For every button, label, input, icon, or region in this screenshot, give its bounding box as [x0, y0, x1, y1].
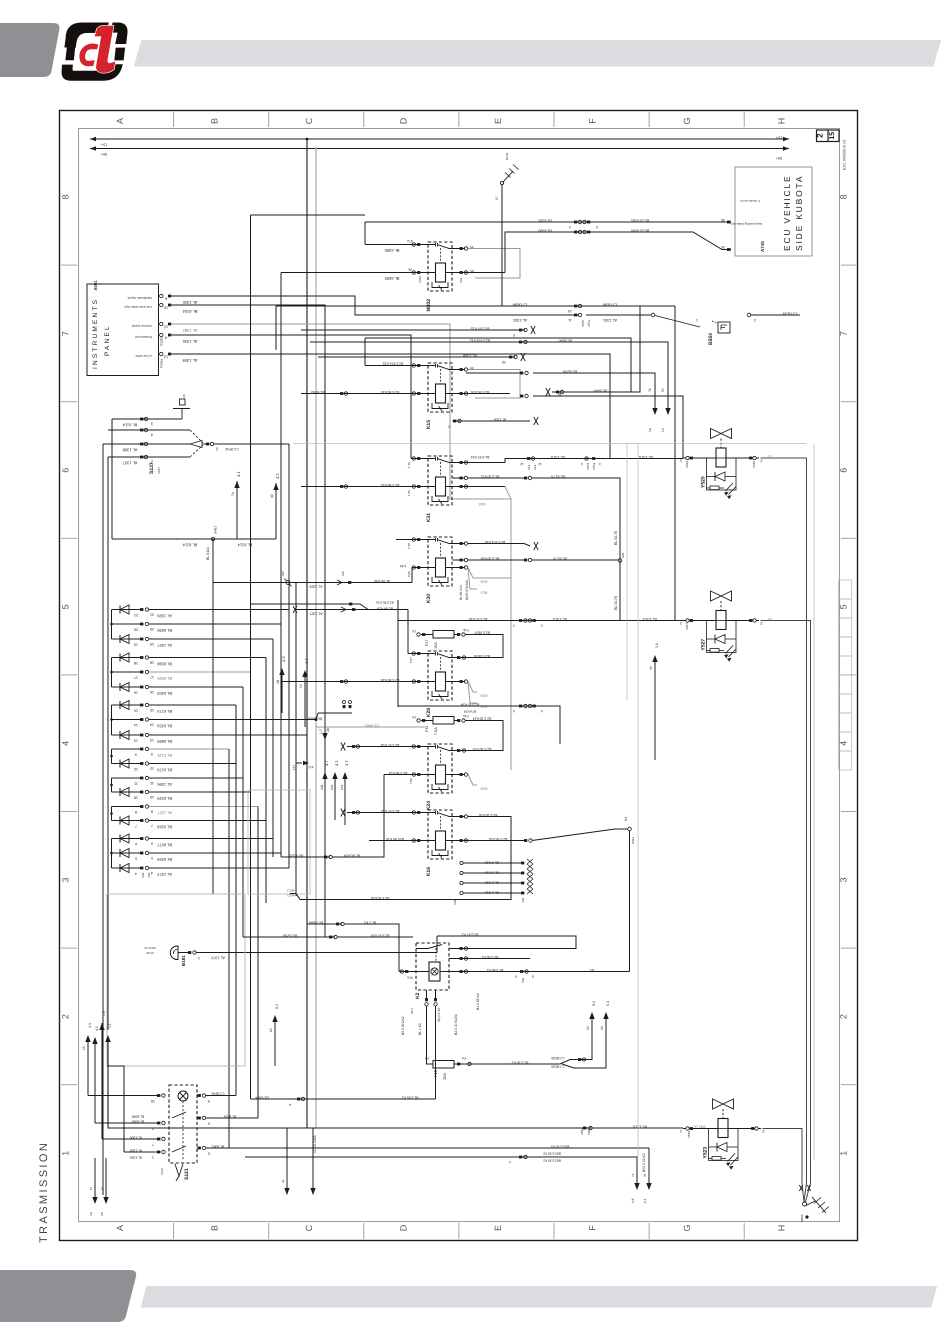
svg-text:21: 21: [134, 613, 138, 617]
K15 aux row AL 1399: [318, 356, 515, 358]
svg-text:X312: X312: [418, 276, 422, 283]
channel ref arrow 4.7: [304, 677, 306, 727]
svg-text:2: 2: [816, 133, 825, 138]
svg-text:B7a K24: B7a K24: [464, 710, 476, 714]
svg-text:B1.5 87 K30: B1.5 87 K30: [469, 617, 488, 621]
svg-text:BL 6269: BL 6269: [156, 824, 172, 829]
svg-text:B02.5 32 K2: B02.5 32 K2: [642, 1153, 646, 1172]
svg-text:BL 6114: BL 6114: [182, 543, 197, 548]
svg-text:15: 15: [829, 132, 836, 140]
K29 85 tags: [453, 681, 466, 683]
svg-text:3: 3: [61, 877, 71, 882]
K15 30 row to down arrow: [533, 373, 655, 408]
svg-text:CJ 0F42: CJ 0F42: [225, 447, 239, 451]
svg-text:AL 1301: AL 1301: [513, 318, 527, 322]
svg-text:X56a: X56a: [580, 1128, 584, 1135]
diode bank left bus segments: [111, 610, 113, 640]
svg-text:B2.5 87 K2: B2.5 87 K2: [461, 933, 478, 937]
svg-text:NO5: NO5: [478, 502, 485, 506]
solenoid valve Y523: [679, 1099, 765, 1170]
svg-text:1: 1: [679, 621, 682, 626]
svg-text:BL 1109: BL 1109: [494, 418, 506, 422]
svg-text:BL 6229: BL 6229: [156, 796, 172, 801]
svg-text:6: 6: [61, 468, 71, 473]
svg-text:B2.5 86 K16: B2.5 86 K16: [376, 601, 394, 605]
svg-text:15A: 15A: [442, 1073, 447, 1080]
svg-text:4.2: 4.2: [275, 473, 280, 479]
wire BL 6259: [243, 936, 335, 938]
diode row pin 14 BL 6259: [112, 719, 141, 721]
svg-text:B1.5 30 K30: B1.5 30 K30: [481, 557, 500, 561]
svg-text:B: B: [210, 118, 220, 124]
S121 right pins: [198, 1094, 201, 1097]
svg-text:B2.5 0E30: B2.5 0E30: [474, 654, 490, 658]
svg-text:15: 15: [134, 709, 138, 713]
svg-text:B02.5 30 K2: B02.5 30 K2: [543, 1159, 561, 1163]
svg-text:4.1: 4.1: [334, 760, 339, 766]
K15 aux row B2.5 87a K15 to arrow: [310, 341, 530, 343]
down arrow 1.7: [324, 727, 326, 733]
svg-text:20: 20: [134, 628, 138, 632]
switch B554: [586, 314, 651, 316]
diode row pin 9 BL 6119: [112, 748, 141, 750]
svg-text:AL 1326: AL 1326: [182, 339, 198, 344]
svg-text:2: 2: [839, 1014, 849, 1019]
svg-text:B25 86 K16: B25 86 K16: [386, 837, 404, 841]
svg-text:18: 18: [134, 661, 138, 665]
svg-text:10: 10: [568, 309, 572, 313]
svg-text:8: 8: [61, 194, 71, 199]
K2 left wire: [399, 971, 429, 973]
svg-text:1.5: 1.5: [102, 1011, 106, 1016]
svg-text:ECU VEHICLE: ECU VEHICLE: [782, 175, 792, 251]
K24 85 tag: [453, 774, 466, 776]
svg-text:X57b: X57b: [581, 320, 585, 327]
Y527 return wire: [761, 621, 811, 1203]
S121 lamp left arrows: [85, 1035, 90, 1042]
power rail 50+: [90, 148, 789, 150]
svg-text:BL 6179: BL 6179: [156, 767, 172, 772]
ref up arrow 9.1: [274, 1022, 276, 1066]
panel wire AL 1309: [171, 354, 610, 459]
svg-text:XP1a: XP1a: [592, 462, 596, 470]
svg-text:7: 7: [839, 331, 849, 336]
junction merge circle a: [212, 539, 214, 894]
Y523 return wire: [763, 1129, 805, 1203]
svg-text:5: 5: [151, 856, 153, 860]
svg-text:9.1: 9.1: [592, 1001, 596, 1006]
svg-text:A001: A001: [93, 280, 98, 291]
rail tap verticals: [306, 138, 309, 141]
svg-text:5: 5: [135, 857, 137, 861]
svg-text:3: 3: [569, 225, 571, 229]
K2 mid right wire: [449, 958, 530, 960]
svg-text:Y527: Y527: [701, 639, 707, 651]
switch S121: [169, 1085, 197, 1163]
svg-text:AL 1313: AL 1313: [643, 617, 657, 621]
Deutz logo emblem: [62, 23, 128, 81]
M302 top link to ECU wire: [365, 221, 731, 223]
svg-text:G: G: [682, 1224, 692, 1231]
svg-text:1: 1: [679, 1129, 682, 1134]
B554 branch wire CJ 0E86: [276, 305, 675, 307]
merge row to K30 coil: [289, 582, 412, 584]
svg-text:BL 6077: BL 6077: [156, 842, 172, 847]
panel wire AL 1326: [171, 296, 579, 315]
svg-text:X56b: X56b: [587, 1128, 591, 1135]
fuse F18 15A: [433, 1061, 454, 1069]
Y520 return wire: [761, 458, 807, 1202]
svg-text:4.2: 4.2: [95, 1026, 99, 1031]
svg-text:reverse speed: reverse speed: [132, 324, 152, 328]
svg-text:1.8: 1.8: [631, 1198, 635, 1203]
svg-text:X#a: X#a: [147, 872, 151, 878]
svg-text:F31: F31: [425, 725, 429, 732]
M302 85 wire to ECU: [453, 272, 506, 274]
S137 contact: [190, 430, 203, 443]
S121 left wires: [88, 1095, 157, 1097]
svg-text:15: 15: [164, 324, 168, 328]
svg-text:B0.25 6090: B0.25 6090: [631, 229, 649, 233]
svg-text:AL 1327: AL 1327: [156, 810, 172, 815]
svg-text:X101a: X101a: [160, 359, 164, 368]
svg-text:X57a: X57a: [587, 320, 591, 327]
svg-text:12: 12: [150, 767, 154, 771]
svg-text:5: 5: [839, 604, 849, 609]
svg-text:X535: X535: [752, 461, 756, 468]
svg-text:B0.25 6395: B0.25 6395: [631, 219, 649, 223]
svg-text:70: 70: [643, 1173, 647, 1177]
svg-text:F: F: [588, 1225, 598, 1231]
svg-text:1: 1: [61, 1151, 71, 1156]
wire BL 6899 to K2: [307, 923, 342, 925]
svg-text:4.7: 4.7: [344, 760, 349, 766]
svg-text:7: 7: [61, 331, 71, 336]
svg-text:E: E: [493, 1225, 503, 1231]
svg-text:XP1b: XP1b: [586, 462, 590, 470]
svg-text:S121: S121: [184, 1168, 190, 1180]
svg-text:14: 14: [150, 723, 154, 727]
sheet number box: [817, 130, 840, 142]
svg-text:AL 1315: AL 1315: [633, 1125, 647, 1129]
svg-text:BL 6395: BL 6395: [538, 219, 551, 223]
svg-text:2: 2: [760, 459, 763, 464]
svg-text:15A: 15A: [434, 642, 438, 649]
svg-text:15: 15: [150, 708, 154, 712]
svg-text:AL 1314: AL 1314: [639, 455, 653, 459]
svg-text:Y520: Y520: [701, 476, 707, 488]
svg-text:AL 1382: AL 1382: [182, 328, 198, 333]
svg-text:M302: M302: [426, 299, 432, 312]
svg-text:#2 2: #2 2: [410, 1008, 414, 1014]
svg-text:7.5A: 7.5A: [434, 727, 438, 735]
svg-text:BL 6174: BL 6174: [156, 709, 172, 714]
junction merge X b: [293, 606, 297, 613]
svg-text:B2.5 87 K2#: B2.5 87 K2#: [371, 934, 390, 938]
svg-text:K30: K30: [426, 594, 432, 603]
svg-text:X1a: X1a: [533, 464, 537, 470]
svg-text:BL 6690: BL 6690: [384, 276, 400, 281]
solenoid valve Y527: [679, 591, 763, 662]
svg-text:B2.5 30 K16: B2.5 30 K16: [371, 896, 390, 900]
svg-text:F27: F27: [425, 639, 429, 646]
svg-text:4: 4: [839, 741, 849, 746]
svg-text:7: 7: [151, 824, 153, 828]
svg-text:CJ 0E45: CJ 0E45: [211, 1092, 224, 1096]
svg-text:K29: K29: [426, 708, 432, 717]
svg-text:AL 1309: AL 1309: [182, 358, 198, 363]
K2 top wire from B181: [437, 936, 576, 949]
svg-text:46 CJ: 46 CJ: [287, 889, 295, 893]
S121 right wires: [206, 1095, 236, 1097]
svg-text:11: 11: [89, 1187, 93, 1190]
svg-text:3: 3: [596, 225, 598, 229]
svg-text:CJ 0E30: CJ 0E30: [551, 1056, 564, 1060]
diode row pin 20 BL 6690: [112, 623, 141, 625]
svg-text:1J: 1J: [661, 428, 665, 432]
K16 30 wire loop down: [453, 816, 466, 818]
svg-text:EXC 0A/500 re 01: EXC 0A/500 re 01: [843, 139, 847, 170]
gray harness box S121: [107, 894, 245, 1066]
svg-text:0J: 0J: [299, 684, 303, 688]
svg-text:S neutre du rel: S neutre du rel: [740, 199, 760, 203]
svg-text:B1.5 87 K31: B1.5 87 K31: [471, 455, 490, 459]
diode row pin 5 BL 6259: [112, 852, 141, 854]
K30 87a X stub: [453, 543, 466, 545]
BL 6525 wire: [281, 856, 330, 858]
svg-text:TRASMISSION: TRASMISSION: [38, 1141, 50, 1243]
footer light gray bar: [141, 1286, 937, 1308]
diode row pin 7 BL 6269: [112, 820, 141, 822]
relay K30: [426, 537, 453, 603]
svg-text:5: 5: [532, 975, 534, 979]
svg-text:BL 6259: BL 6259: [156, 857, 172, 862]
K31 left wires: [411, 458, 428, 460]
svg-text:CJ 0E86: CJ 0E86: [513, 303, 528, 307]
svg-text:NO5: NO5: [480, 694, 487, 698]
svg-text:B2.5 86 K15: B2.5 86 K15: [381, 390, 400, 394]
svg-text:6 86: 6 86: [400, 564, 406, 568]
svg-text:AL 1326: AL 1326: [182, 300, 198, 305]
K31 contact out to AL 1314: [453, 462, 506, 464]
cable shield to ground: [799, 1185, 802, 1191]
svg-text:28: 28: [326, 728, 330, 732]
merge row b: [251, 604, 369, 610]
svg-text:9: 9: [151, 752, 153, 756]
svg-text:Gnd1: Gnd1: [505, 152, 509, 160]
svg-text:CJ 0E39: CJ 0E39: [783, 312, 798, 316]
header dark gray bar: [0, 23, 59, 77]
K16 twisted cable rows: [460, 861, 463, 864]
svg-text:AL 1326: AL 1326: [156, 613, 172, 618]
svg-text:B02.5 32 K2: B02.5 32 K2: [551, 1145, 570, 1149]
K30 85 tags: [453, 567, 466, 569]
svg-text:2: 2: [754, 318, 756, 322]
svg-text:76: 76: [648, 388, 652, 392]
svg-text:9: 9: [513, 709, 515, 713]
svg-text:11: 11: [134, 782, 138, 786]
svg-text:16: 16: [150, 690, 154, 694]
svg-text:B1.5 30 K2: B1.5 30 K2: [511, 1061, 528, 1065]
svg-text:B2.5 87a K2: B2.5 87a K2: [401, 1016, 405, 1035]
right side gray comb: [839, 580, 852, 599]
svg-text:X101b: X101b: [160, 337, 164, 346]
svg-text:BL 6030: BL 6030: [132, 1115, 145, 1119]
svg-text:4: 4: [599, 462, 601, 466]
footer dark gray bar: [0, 1270, 136, 1322]
svg-text:1a: 1a: [648, 428, 652, 432]
svg-text:6 30: 6 30: [407, 543, 411, 549]
svg-text:127: 127: [292, 765, 296, 770]
svg-text:BL 6259: BL 6259: [283, 934, 297, 938]
wire CJ 0E86 right: [552, 306, 640, 392]
K2 85 wire bottom: [251, 1098, 436, 1100]
svg-text:8: 8: [839, 194, 849, 199]
svg-text:S#5: S#5: [621, 552, 625, 558]
top distribution wire: [251, 214, 366, 216]
svg-text:handbrake signal: handbrake signal: [127, 296, 152, 300]
svg-text:B02.5 30 K2: B02.5 30 K2: [543, 1152, 561, 1156]
svg-text:B1.5 87 K16: B1.5 87 K16: [381, 809, 400, 813]
K24 coil-left: [384, 774, 428, 776]
diode row pin 6 BL 6077: [112, 838, 141, 840]
K31 30 wire BL 6175: [453, 477, 466, 479]
panel pins: [160, 294, 163, 297]
svg-text:BL 6690: BL 6690: [156, 628, 172, 633]
svg-text:50+: 50+: [775, 156, 782, 160]
svg-text:BL 86 K24: BL 86 K24: [459, 585, 463, 600]
BL 6899 stub pair: [318, 712, 352, 714]
svg-text:AL 1301: AL 1301: [603, 318, 617, 322]
merge row to K29: [296, 609, 408, 611]
svg-text:BL 6114: BL 6114: [122, 423, 137, 428]
svg-text:BL 86 K29: BL 86 K29: [377, 607, 393, 611]
svg-text:59: 59: [586, 1026, 590, 1030]
svg-text:17: 17: [150, 675, 154, 679]
relay M302: [426, 242, 453, 312]
diode row pin 11 AL 1396: [112, 777, 141, 779]
svg-text:5: 5: [215, 447, 218, 452]
svg-text:15: 15: [82, 1046, 86, 1050]
diode row pin 10 BL 6229: [112, 791, 141, 793]
svg-text:X#: X#: [182, 394, 186, 398]
ref arrow 4.2: [273, 483, 278, 490]
svg-text:4.1: 4.1: [88, 1023, 92, 1028]
svg-text:B2.5 87 K24: B2.5 87 K24: [381, 743, 400, 747]
svg-text:45 CJ: 45 CJ: [287, 894, 295, 898]
svg-text:15+: 15+: [100, 143, 107, 147]
svg-text:0M02: 0M02: [800, 1214, 804, 1222]
svg-text:a. low rathe: a. low rathe: [135, 354, 152, 358]
svg-text:57: 57: [495, 196, 499, 200]
svg-text:N1: N1: [590, 968, 594, 972]
svg-text:3: 3: [839, 877, 849, 882]
K15 wires: [365, 365, 428, 367]
S121 contacts: [172, 1112, 186, 1118]
svg-text:1.7: 1.7: [319, 729, 323, 734]
svg-text:C: C: [304, 117, 314, 124]
svg-text:12: 12: [520, 462, 524, 466]
svg-text:F1b: F1b: [463, 628, 469, 632]
svg-text:20: 20: [150, 627, 154, 631]
svg-text:AL 1372: AL 1372: [156, 872, 172, 877]
svg-text:H: H: [777, 118, 787, 125]
svg-text:19: 19: [150, 642, 154, 646]
svg-text:BL 1 K2: BL 1 K2: [364, 921, 376, 925]
svg-text:BL 6175: BL 6175: [614, 596, 618, 610]
svg-text:4: 4: [289, 1103, 291, 1107]
svg-text:SIDE KUBOTA: SIDE KUBOTA: [794, 175, 804, 251]
svg-text:124: 124: [340, 784, 344, 790]
relay K16: [426, 810, 453, 876]
svg-text:55: 55: [661, 388, 665, 392]
svg-text:B1.5 30 K31: B1.5 30 K31: [481, 475, 500, 479]
svg-text:1 86: 1 86: [407, 490, 411, 496]
svg-text:B2.5 0E97: B2.5 0E97: [474, 631, 490, 635]
relay K15: [426, 363, 453, 429]
svg-text:13: 13: [134, 739, 138, 743]
pushbutton on S137: [180, 399, 186, 405]
svg-text:B2.5 87a K15: B2.5 87a K15: [383, 362, 404, 366]
svg-text:1e: 1e: [100, 1212, 104, 1216]
svg-text:11: 11: [100, 1187, 104, 1190]
svg-text:1: 1: [839, 1151, 849, 1156]
svg-text:BL 2 K16: BL 2 K16: [485, 881, 499, 885]
svg-text:6: 6: [509, 1160, 511, 1164]
F31 U loop to K24 contact: [465, 721, 503, 751]
svg-text:S#a4: S#a4: [631, 837, 635, 844]
svg-text:9: 9: [541, 709, 543, 713]
svg-text:4: 4: [150, 433, 153, 438]
svg-text:1: 1: [198, 956, 200, 960]
diode row pin 21 AL 1326: [112, 609, 141, 611]
svg-text:BL 6114: BL 6114: [206, 547, 210, 560]
svg-text:BL 6119: BL 6119: [157, 753, 172, 758]
svg-text:4: 4: [165, 335, 167, 339]
CL 0E30 rows to ref arrows: [560, 1019, 592, 1064]
F27 U loop to K29 contact: [465, 635, 503, 658]
svg-text:B181: B181: [181, 955, 186, 966]
svg-text:50: 50: [768, 617, 772, 621]
wire channel verticals: [102, 444, 104, 1195]
K15 aux wire with X: [453, 420, 531, 422]
svg-text:BL 6047: BL 6047: [558, 339, 572, 343]
svg-text:2: 2: [61, 1014, 71, 1019]
svg-text:BL 6259: BL 6259: [224, 1115, 237, 1119]
K24 contact right pin: [453, 750, 467, 752]
svg-text:4.3: 4.3: [281, 656, 286, 662]
ref arrow 33: [654, 662, 656, 760]
svg-text:6: 6: [151, 842, 153, 846]
svg-text:B2.5 85 K16: B2.5 85 K16: [489, 837, 508, 841]
svg-text:INSTRUMENTS: INSTRUMENTS: [92, 298, 99, 369]
svg-text:BL 4 K16: BL 4 K16: [485, 861, 499, 865]
svg-text:X545: X545: [687, 1131, 691, 1138]
solenoid valve Y520: [679, 429, 763, 500]
svg-text:BL 6175: BL 6175: [553, 557, 567, 561]
svg-text:BL 1 K16: BL 1 K16: [485, 891, 499, 895]
svg-text:17: 17: [134, 676, 138, 680]
svg-text:3: 3: [513, 624, 515, 628]
svg-text:B1.5 85 K2: B1.5 85 K2: [401, 1096, 418, 1100]
sensor B181: [170, 946, 178, 960]
svg-text:BL 6030: BL 6030: [132, 1120, 145, 1124]
junction S4N1 wire BL 6114: [111, 419, 113, 539]
svg-text:87a: 87a: [407, 976, 413, 980]
svg-text:5: 5: [61, 604, 71, 609]
svg-text:F: F: [588, 118, 598, 124]
svg-text:A: A: [115, 1225, 125, 1231]
